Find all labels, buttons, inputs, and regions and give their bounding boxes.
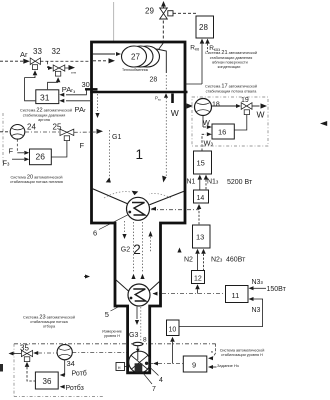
svg-text:12: 12 [194,275,202,282]
svg-text:24: 24 [27,122,36,131]
svg-text:W: W [203,118,211,127]
svg-text:стабилизации потока питания: стабилизации потока питания [10,180,63,184]
svg-text:отбора: отбора [43,325,56,329]
svg-text:8: 8 [143,337,147,344]
svg-text:11: 11 [232,291,240,300]
svg-text:28: 28 [150,77,158,84]
svg-text:15: 15 [197,159,205,168]
svg-text:G2: G2 [121,247,130,254]
svg-text:N1: N1 [187,179,196,186]
svg-text:Pко: Pко [155,96,161,102]
svg-text:уровня Н: уровня Н [104,334,120,338]
svg-text:5200 Вт: 5200 Вт [227,179,253,186]
svg-text:N2з: N2з [211,257,223,264]
svg-text:16: 16 [218,128,226,137]
svg-text:5: 5 [105,310,109,319]
svg-text:25: 25 [53,122,62,131]
svg-text:150Вт: 150Вт [267,286,287,293]
svg-text:стабилизации давления: стабилизации давления [23,113,66,117]
svg-text:31: 31 [40,92,50,102]
svg-text:G3: G3 [129,332,138,339]
svg-text:36: 36 [43,377,52,386]
svg-text:Ротбз: Ротбз [66,384,84,392]
svg-text:F: F [9,146,14,155]
svg-text:26: 26 [36,152,46,162]
svg-text:6: 6 [93,228,97,237]
svg-text:4: 4 [159,377,163,384]
svg-text:N3: N3 [252,307,261,314]
svg-text:14: 14 [197,195,205,202]
svg-text:стабилизации давления: стабилизации давления [210,56,253,60]
svg-text:Ротб: Ротб [72,370,87,378]
svg-text:30: 30 [82,80,90,89]
svg-text:34: 34 [67,359,75,368]
svg-text:F: F [80,141,85,150]
svg-text:Rко: Rко [190,45,200,52]
svg-text:460Вт: 460Вт [226,257,246,264]
svg-text:7: 7 [152,386,156,393]
svg-text:N1з: N1з [207,179,219,186]
svg-text:N3з: N3з [252,279,264,286]
svg-text:32: 32 [52,47,61,56]
svg-text:стабилизации потока отвала: стабилизации потока отвала [206,89,258,93]
svg-text:вблизи поверхности: вблизи поверхности [212,60,247,64]
svg-text:1: 1 [136,147,144,162]
svg-text:аргона: аргона [38,118,51,122]
svg-text:стабилизации потока: стабилизации потока [30,320,68,324]
svg-text:N2: N2 [184,257,193,264]
svg-text:стабилизации уровня Н: стабилизации уровня Н [221,353,263,357]
svg-text:33: 33 [33,47,42,56]
svg-text:29: 29 [145,7,154,16]
svg-text:Измерение: Измерение [102,329,122,333]
svg-text:9: 9 [192,361,196,370]
svg-text:28: 28 [199,23,208,32]
svg-text:27: 27 [131,53,140,62]
svg-text:атм: атм [71,71,76,75]
svg-text:2: 2 [133,242,141,257]
svg-text:18: 18 [212,102,220,109]
svg-text:19: 19 [241,97,249,104]
svg-text:конденсации: конденсации [218,65,241,69]
svg-text:W: W [257,109,265,119]
svg-text:Система автоматической: Система автоматической [220,348,265,352]
svg-text:Теплообменник: Теплообменник [122,68,148,72]
svg-text:W: W [171,108,179,118]
svg-text:G1: G1 [112,134,121,141]
svg-text:13: 13 [196,233,204,242]
svg-text:н: н [211,349,213,354]
svg-text:Ar: Ar [20,50,28,59]
svg-text:10: 10 [169,327,177,334]
svg-text:Задание Нз: Задание Нз [217,363,239,368]
